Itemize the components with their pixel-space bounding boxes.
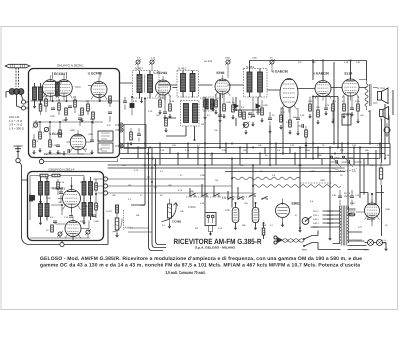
svg-text:5000: 5000 [350,202,356,205]
tube EF89 [215,75,230,98]
FM box wiring [30,72,120,126]
title text [174,237,262,250]
svg-text:10k: 10k [360,114,364,117]
volume potentiometer [162,199,178,229]
svg-text:125 v: 125 v [313,214,320,217]
svg-text:200 v: 200 v [327,214,334,217]
FM box components row [32,96,112,133]
svg-text:0,02: 0,02 [356,61,361,64]
svg-text:10k: 10k [180,210,184,213]
AM box terminals [93,177,253,195]
svg-text:1M: 1M [215,179,218,182]
svg-text:3,3k: 3,3k [262,224,267,227]
svg-text:N.461: N.461 [178,67,186,71]
svg-text:50k: 50k [136,214,140,217]
svg-text:220 v: 220 v [313,226,320,229]
long vertical wires [205,94,370,237]
svg-text:4,7k: 4,7k [60,181,65,184]
EZ40 top wires [360,193,384,205]
svg-text:0,25: 0,25 [308,100,313,103]
svg-text:0,5: 0,5 [277,149,281,152]
svg-text:Rete: Rete [302,249,308,252]
svg-text:EM81: EM81 [292,202,301,206]
svg-text:N.7204: N.7204 [377,87,385,90]
tone switch arrows [331,156,354,167]
speaker 2 tweeter [380,107,389,121]
FM osc components [32,130,94,155]
svg-text:Commutatore: Commutatore [349,239,363,242]
svg-text:0,25: 0,25 [160,149,165,152]
dashed shield line [123,210,125,230]
svg-text:0,5: 0,5 [137,57,141,60]
svg-text:0,1: 0,1 [207,114,211,117]
svg-text:3,3k: 3,3k [83,148,88,151]
right resistor [379,162,382,185]
AM osc tube [65,216,81,240]
phono jack right [384,123,390,137]
svg-text:1M: 1M [195,227,198,230]
svg-text:470: 470 [281,111,285,114]
AM box components [30,174,98,237]
svg-text:1-3 = 300 Ω: 1-3 = 300 Ω [9,126,24,130]
svg-text:gamme OC da 43 a 130 m e da 14: gamme OC da 43 a 130 m e da 14 a 43 m, n… [40,263,360,269]
svg-text:4,7k: 4,7k [325,104,330,107]
svg-text:100: 100 [316,106,320,109]
fuse [349,213,355,216]
svg-text:0,1: 0,1 [160,170,164,173]
svg-text:ECC84: ECC84 [54,72,65,76]
svg-text:2,2k: 2,2k [355,194,360,197]
svg-text:68k: 68k [160,97,164,100]
rectifier tube EZ40 [365,199,380,222]
svg-text:0,1: 0,1 [128,198,132,201]
electrolytic capacitor C1 [232,203,239,230]
svg-text:4,7k: 4,7k [178,189,183,192]
svg-text:4,7k: 4,7k [134,169,139,172]
svg-text:5000: 5000 [334,157,340,160]
svg-text:25: 25 [340,174,343,177]
svg-text:47: 47 [180,174,183,177]
AM tuner group box N.2621 [28,172,104,241]
small resistor near plug [262,222,265,239]
electrolytic capacitor C2 [252,203,259,230]
svg-text:220k: 220k [226,101,232,104]
tube ECC84 [42,75,72,100]
svg-text:1000: 1000 [263,104,269,107]
voltage selector [302,217,311,225]
svg-text:100: 100 [244,202,248,205]
pickup wires down [208,226,212,236]
svg-text:68k: 68k [365,149,369,152]
svg-text:110 v: 110 v [313,210,319,213]
svg-text:N.252: N.252 [106,210,113,213]
svg-text:0,25: 0,25 [385,154,390,157]
svg-text:EZ40: EZ40 [367,217,375,221]
svg-text:3,5 watt. Consumo 70 watt.: 3,5 watt. Consumo 70 watt. [166,270,206,275]
EL84 components [342,96,359,125]
balun coil [6,89,24,98]
svg-text:5000: 5000 [80,220,86,223]
svg-text:1M: 1M [346,114,349,117]
svg-text:220k: 220k [50,115,56,118]
FM dipole antenna [5,64,30,87]
center vertical wire bundle [128,144,166,251]
AM antenna coil pair 2 [39,199,50,225]
right speaker feed wires [382,90,394,236]
svg-text:0,25: 0,25 [222,197,227,200]
FM trimmer cans [98,131,113,153]
IF transformer T1 N.467 [133,71,160,99]
tube half ECH81 IF [156,76,171,99]
svg-text:0,5: 0,5 [50,216,54,219]
svg-text:47: 47 [86,100,89,103]
svg-text:2,2k: 2,2k [64,216,69,219]
AM osc coil pair [82,177,93,199]
labels near dial [106,198,140,217]
svg-text:0,25: 0,25 [98,148,103,151]
FM box bottom wiring [33,121,103,154]
svg-text:47: 47 [140,194,143,197]
af coupling parts [298,124,308,147]
svg-text:3,3k: 3,3k [170,100,175,103]
antenna terminals [17,94,29,110]
svg-text:0,1: 0,1 [73,96,77,99]
band switch gang [186,184,268,200]
svg-text:GRUPPO N 2620-E: GRUPPO N 2620-E [57,64,84,68]
detector components [279,108,300,135]
AF stage components [308,97,334,125]
components under T3 / EABC80 [231,97,272,129]
tone potentiometer [113,205,123,238]
svg-text:0,02: 0,02 [352,144,357,147]
IF transformer T3 N.461 [244,69,268,98]
svg-text:140 v: 140 v [313,218,320,221]
svg-text:50: 50 [160,194,163,197]
pilot lamps [365,240,388,252]
svg-text:EF85: EF85 [217,71,225,75]
svg-text:47: 47 [295,214,298,217]
right B+ feeders [333,62,390,205]
svg-text:0,1: 0,1 [333,100,337,103]
wires under AM box [60,220,108,247]
svg-text:½ EABC80: ½ EABC80 [272,70,289,74]
extra grounds [163,107,360,241]
heater wiring wavy [232,172,341,188]
svg-text:5000: 5000 [225,57,231,60]
svg-text:220k: 220k [46,197,52,200]
svg-text:10k: 10k [112,194,116,197]
inter-bus link wires [127,143,381,166]
svg-text:25: 25 [322,144,325,147]
svg-text:470: 470 [298,61,302,64]
twisted mains cord [283,239,305,243]
svg-text:0,02: 0,02 [370,164,375,167]
svg-text:10k: 10k [214,129,218,132]
phono pickup connector [205,213,216,226]
power transformer [311,206,369,250]
svg-text:1M: 1M [62,119,65,122]
FM input coil [33,83,43,115]
svg-text:0,5: 0,5 [241,106,245,109]
tube half EABC80 AF [315,76,331,100]
svg-text:1000: 1000 [252,57,258,60]
svg-text:5000: 5000 [310,170,316,173]
FM IF output terminals [115,123,123,148]
svg-text:RICEVITORE AM-FM G.385-R: RICEVITORE AM-FM G.385-R [174,237,262,246]
svg-text:1M: 1M [128,184,131,187]
svg-text:GRUPPO N 2621-F: GRUPPO N 2621-F [49,167,76,171]
svg-text:1M: 1M [243,149,246,152]
IF transformer T2 N.461 [177,71,199,98]
svg-text:0,1: 0,1 [162,224,166,227]
svg-text:CC/081: CC/081 [172,220,182,224]
AM antenna [14,146,61,245]
svg-text:100: 100 [172,144,176,147]
svg-text:220k: 220k [222,149,228,152]
svg-text:68k: 68k [58,152,62,155]
svg-text:68k: 68k [293,116,297,119]
svg-text:0,02: 0,02 [133,100,138,103]
svg-text:100: 100 [122,164,126,167]
svg-text:1000: 1000 [94,220,100,223]
svg-text:A.4012: A.4012 [125,227,134,230]
svg-text:3,3k: 3,3k [200,202,205,205]
caption paragraph [40,256,362,275]
tube half EABC80 detector [280,79,298,113]
svg-text:10k: 10k [78,114,82,117]
svg-text:25: 25 [272,114,275,117]
svg-text:½ ECH81: ½ ECH81 [153,71,167,75]
AM mixer tube [63,185,81,213]
svg-text:25: 25 [97,140,100,143]
svg-text:100: 100 [156,114,160,117]
trimmers above T1 [135,59,155,70]
FM box output terminal [39,158,117,164]
svg-text:4,7k: 4,7k [56,99,61,102]
svg-text:3,3k: 3,3k [344,61,349,64]
svg-text:Fusibile: Fusibile [348,210,356,213]
svg-text:4,7k: 4,7k [200,97,205,100]
svg-text:EL84: EL84 [345,72,353,76]
svg-text:5000: 5000 [256,111,262,114]
svg-text:S.p.A. GELOSO - MILANO: S.p.A. GELOSO - MILANO [195,246,236,250]
svg-text:100: 100 [168,184,172,187]
svg-text:2,2k: 2,2k [290,144,295,147]
tube EL84 [342,75,359,101]
svg-text:47: 47 [342,100,345,103]
parts above IF link [123,96,143,116]
svg-text:160 v: 160 v [313,222,320,225]
mains switch [303,231,341,250]
svg-text:1M: 1M [201,123,204,126]
svg-text:50: 50 [96,205,99,208]
speaker 1 [373,88,388,104]
main bus wires [108,143,390,172]
rectifier wiring [356,193,373,226]
svg-text:AL 303: AL 303 [204,60,213,63]
AM osc coil pair 2 [82,198,93,225]
components under EF89 [214,94,226,119]
svg-text:3,3k: 3,3k [300,114,305,117]
svg-text:0,5: 0,5 [35,140,39,143]
svg-text:25: 25 [385,224,388,227]
svg-text:50: 50 [368,110,371,113]
output transformer [351,79,372,110]
svg-text:10k: 10k [240,164,244,167]
small parts above T3 [204,59,275,78]
svg-text:25: 25 [270,57,273,60]
svg-text:0,1: 0,1 [197,144,201,147]
svg-text:350 V: 350 V [344,195,351,198]
svg-text:0,5: 0,5 [272,174,276,177]
svg-text:4,7k: 4,7k [185,149,190,152]
extra junction dots [119,143,373,230]
svg-text:25: 25 [46,229,49,232]
svg-text:0,02: 0,02 [44,153,49,156]
svg-text:0,5: 0,5 [310,200,314,203]
B+ top bus [250,60,367,81]
IF link box [124,125,146,149]
svg-text:N.467: N.467 [135,67,143,71]
transformer tap labels [313,210,334,229]
svg-text:0,25: 0,25 [148,110,153,113]
coupling caps 50uF [338,190,354,206]
FM osc section [70,130,86,154]
component value labels [35,57,391,233]
svg-text:N.461: N.461 [246,65,254,69]
svg-text:470: 470 [358,226,362,229]
T4 lower stems [164,118,195,141]
svg-text:220k: 220k [225,209,231,212]
plate link wires [120,83,367,144]
svg-text:160 v: 160 v [327,210,334,213]
svg-text:1000: 1000 [385,208,391,211]
dashed line right area [300,182,332,184]
FM tuner group box N.2620 [29,69,120,158]
svg-text:220k: 220k [355,100,361,103]
svg-text:GELOSO - Mod. AM/FM G.385/R. R: GELOSO - Mod. AM/FM G.385/R. Ricevitore … [40,256,362,262]
svg-text:260 v: 260 v [327,222,334,225]
mains plug [274,236,282,244]
antenna matching note [9,115,24,130]
band selector switches [188,193,244,209]
tube half ECF80 [91,77,107,101]
ratio detector diodes [233,97,262,127]
tone control caps [330,157,362,172]
svg-text:½ ECH81: ½ ECH81 [52,187,65,191]
svg-text:68k: 68k [242,224,246,227]
svg-text:1M: 1M [58,201,61,204]
svg-text:5000: 5000 [70,129,76,132]
svg-text:0,02: 0,02 [332,194,337,197]
AM antenna coil pair [39,177,50,204]
svg-text:1000: 1000 [88,133,94,136]
FM box bottom grounds [44,150,84,156]
svg-text:68k: 68k [190,190,194,193]
svg-text:½ EABC80: ½ EABC80 [313,72,330,76]
AM box wiring [29,176,97,241]
svg-text:2×10⁵: 2×10⁵ [347,157,353,160]
svg-text:2,2k: 2,2k [298,164,303,167]
magic eye EM81 [276,199,290,228]
ratio detector transformer T4 [181,101,200,127]
small IF can above EF89 area [203,97,216,111]
svg-text:10k: 10k [258,144,262,147]
svg-text:50: 50 [265,154,268,157]
svg-text:FONO: FONO [188,206,196,209]
svg-text:68k: 68k [312,61,316,64]
svg-text:0,1: 0,1 [270,224,274,227]
svg-text:2,2k: 2,2k [151,57,156,60]
components under ECH81 [158,95,215,119]
svg-text:6,3 V: 6,3 V [364,249,370,252]
svg-text:0,25: 0,25 [218,227,223,230]
svg-text:10k: 10k [84,205,88,208]
svg-text:100: 100 [45,177,49,180]
svg-text:1000: 1000 [320,179,326,182]
svg-text:220 v: 220 v [327,218,334,221]
svg-text:470: 470 [352,170,356,173]
svg-text:470: 470 [107,124,111,127]
